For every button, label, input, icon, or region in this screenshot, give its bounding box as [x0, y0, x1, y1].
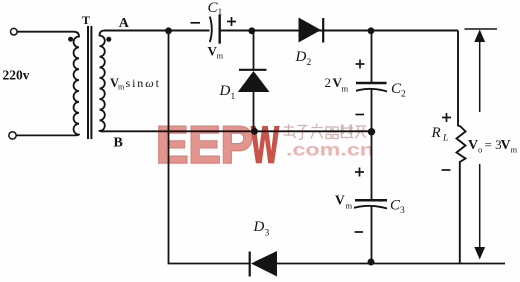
capacitor C3 — [354, 200, 387, 208]
label C3 — [390, 198, 405, 216]
label D3 — [253, 219, 270, 238]
label plus C3 — [355, 168, 364, 177]
label C1 — [208, 0, 223, 18]
terminal bottom-left — [9, 132, 16, 139]
label plus RL — [442, 113, 451, 122]
svg-text:1: 1 — [218, 8, 223, 18]
svg-text:D: D — [253, 219, 265, 235]
wire left vertical rail — [168, 31, 170, 264]
svg-text:2: 2 — [325, 75, 332, 90]
svg-text:sinωt: sinωt — [126, 76, 161, 90]
wire bottom rail — [168, 263, 505, 265]
wire right rail with resistor RL — [457, 31, 466, 264]
label minus RL — [442, 169, 451, 171]
svg-text:V: V — [468, 138, 478, 153]
wire top rail right segment — [221, 30, 459, 32]
node bottom C3 — [368, 259, 375, 266]
svg-text:A: A — [119, 16, 130, 31]
node D1 anode B junction — [251, 128, 258, 135]
polarity dot secondary — [106, 37, 111, 42]
wire C2 top — [371, 31, 373, 83]
label 2Vm — [325, 75, 349, 94]
wire D1 anode drop — [253, 31, 255, 70]
label D2 — [295, 49, 312, 68]
capacitor C1 — [210, 15, 220, 44]
label Vo = 3Vm — [468, 137, 518, 155]
wire top rail left segment — [104, 30, 210, 32]
label minus C3 — [355, 231, 364, 233]
label Vm sin wt — [110, 76, 161, 92]
label D1 — [219, 83, 236, 102]
capacitor C2 — [356, 83, 387, 92]
label 220v — [3, 67, 30, 82]
label B — [114, 136, 123, 151]
polarity dot primary — [68, 37, 73, 42]
diode D2 — [299, 18, 324, 43]
watermark .com.cn — [286, 140, 374, 160]
label Vm C3 — [335, 193, 353, 211]
svg-text:m: m — [217, 51, 224, 61]
top measurement tick — [465, 28, 498, 30]
node C2 C3 midpoint — [368, 128, 375, 135]
svg-text:W: W — [251, 117, 280, 175]
svg-text:2: 2 — [307, 58, 312, 68]
svg-text:L: L — [442, 134, 448, 144]
label minus C2 — [356, 114, 365, 116]
svg-text:.com.cn: .com.cn — [286, 140, 374, 160]
svg-text:1: 1 — [231, 92, 236, 102]
arrow down — [474, 164, 485, 260]
svg-text:m: m — [342, 84, 349, 94]
transformer secondary winding — [100, 31, 105, 132]
wire C3 top — [371, 131, 373, 200]
svg-text:3: 3 — [265, 228, 270, 238]
svg-text:220v: 220v — [3, 67, 30, 82]
svg-text:EEP: EEP — [156, 117, 253, 175]
transformer primary winding — [16, 32, 79, 136]
node J1 — [165, 27, 172, 34]
label Vm below C1 — [208, 44, 224, 61]
svg-text:2: 2 — [401, 90, 406, 100]
label plus C1 — [227, 17, 236, 26]
label minus C1 — [191, 22, 201, 24]
terminal top-left — [11, 28, 18, 35]
node J3 — [368, 27, 375, 34]
wire C2 bottom — [371, 89, 373, 132]
label RL — [431, 125, 449, 144]
watermark chinese characters — [284, 124, 367, 140]
svg-text:D: D — [219, 83, 231, 99]
svg-text:R: R — [431, 125, 441, 141]
svg-text:m: m — [511, 145, 518, 155]
label C2 — [391, 81, 406, 100]
svg-text:V: V — [501, 138, 511, 153]
wire C3 bottom — [371, 206, 373, 264]
svg-text:V: V — [335, 193, 345, 208]
wire B rail — [101, 130, 372, 132]
svg-text:= 3: = 3 — [485, 137, 502, 152]
svg-text:m: m — [346, 201, 353, 211]
diode D3 — [250, 251, 277, 277]
svg-text:T: T — [82, 13, 90, 27]
svg-text:3: 3 — [400, 206, 405, 216]
svg-text:m: m — [118, 83, 125, 92]
svg-text:o: o — [478, 145, 482, 155]
diode D1 — [238, 70, 270, 132]
svg-text:B: B — [114, 136, 123, 151]
label A — [119, 16, 130, 31]
label T — [82, 13, 90, 27]
node J2 — [248, 27, 255, 34]
arrow up — [474, 30, 485, 113]
svg-text:D: D — [295, 49, 307, 65]
transformer core — [88, 26, 91, 139]
label plus C2 — [356, 60, 365, 69]
watermark EEPW logo — [156, 117, 280, 175]
